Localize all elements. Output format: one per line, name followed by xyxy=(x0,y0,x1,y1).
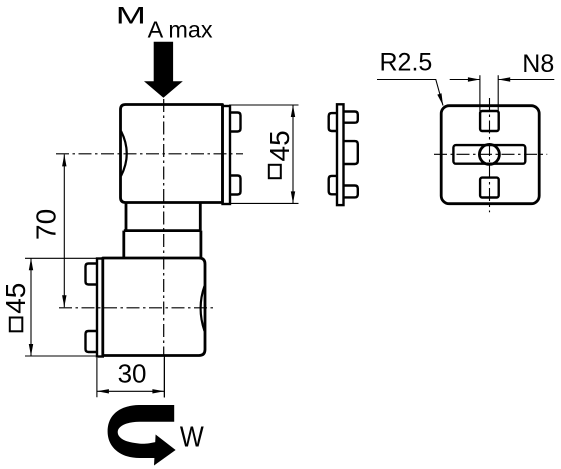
svg-text:N8: N8 xyxy=(522,50,554,78)
dim 70: text xyxy=(31,209,62,240)
neck upper xyxy=(126,203,200,231)
svg-text:W: W xyxy=(180,421,204,453)
neck lower xyxy=(124,231,201,258)
extension line 30 right xyxy=(163,356,165,398)
dim 45 left: extension lines xyxy=(25,258,97,356)
dim 45 left: text xyxy=(0,283,31,314)
svg-text:70: 70 xyxy=(31,209,62,240)
top block tab lower xyxy=(230,176,241,195)
dim N8: lines xyxy=(450,79,555,81)
side view right tab lower xyxy=(344,186,358,198)
top block left bulge arc xyxy=(121,131,127,176)
end view circle xyxy=(479,144,499,164)
M arrow xyxy=(144,42,183,98)
side view left tab upper xyxy=(329,113,337,131)
label M A max xyxy=(116,2,146,30)
bottom block left plate xyxy=(97,259,103,357)
dim 45 left: dimension line xyxy=(30,258,32,356)
end view outer square xyxy=(441,106,539,204)
end view bottom slot xyxy=(480,178,499,198)
top block body xyxy=(121,105,223,203)
svg-text:45: 45 xyxy=(0,283,31,314)
svg-text:M: M xyxy=(116,2,146,30)
bottom block horizontal centerline xyxy=(59,307,216,309)
dim N8: extension lines xyxy=(480,75,498,111)
dim 30: arrows xyxy=(97,389,109,393)
dim 70: dimension line xyxy=(63,154,65,307)
end view vertical centerline xyxy=(489,98,491,212)
side view plate xyxy=(337,104,344,205)
bottom block right bulge arc xyxy=(201,286,205,331)
vertical centerline front view xyxy=(163,99,165,356)
svg-text:45: 45 xyxy=(264,130,295,161)
side view right tab upper xyxy=(344,112,358,123)
W rotation arrow xyxy=(108,405,175,458)
end view top slot xyxy=(480,111,499,131)
dim 30: extension lines xyxy=(97,358,164,397)
dim 70: arrows xyxy=(62,154,66,166)
dim 45 right: text xyxy=(264,130,295,161)
bottom block tab upper xyxy=(86,264,98,285)
side view left tab lower xyxy=(329,176,337,194)
top block horizontal centerline xyxy=(56,153,243,155)
svg-text:R2.5: R2.5 xyxy=(380,49,433,77)
neck divider xyxy=(124,229,201,232)
top block right plate xyxy=(223,106,231,204)
dim 30: dimension line xyxy=(97,390,164,392)
top block tab upper xyxy=(230,113,241,132)
dim N8: arrows xyxy=(468,77,480,81)
dim 45 left: arrows xyxy=(29,258,33,270)
dim 45 right: dimension line xyxy=(292,105,294,203)
R2.5 leader xyxy=(377,80,443,106)
bottom block body xyxy=(103,258,205,356)
label W xyxy=(180,421,204,453)
end view horizontal centerline xyxy=(434,153,547,155)
side view right tab middle xyxy=(344,141,358,164)
svg-text:A max: A max xyxy=(148,17,213,43)
bottom block tab lower xyxy=(86,331,98,352)
dim 45 right: arrows xyxy=(291,105,295,117)
dim 45 right: extension lines xyxy=(229,105,299,203)
end view middle slot xyxy=(453,145,525,164)
svg-text:30: 30 xyxy=(118,359,147,389)
